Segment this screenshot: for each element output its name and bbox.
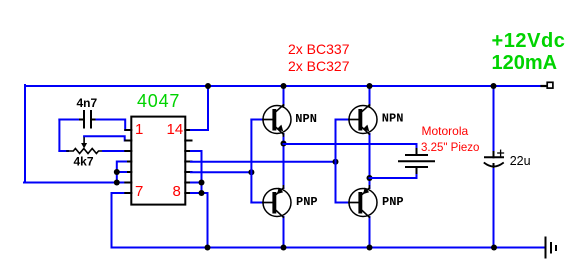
junction C2 at rail	[491, 83, 497, 89]
svg-text:PNP: PNP	[382, 195, 404, 209]
svg-text:NPN: NPN	[382, 112, 404, 126]
junction pin6	[114, 180, 120, 186]
junction right output node	[367, 175, 373, 181]
svg-text:4n7: 4n7	[77, 96, 98, 110]
svg-text:+12Vdc: +12Vdc	[492, 30, 566, 52]
wire left output node to piezo top	[284, 144, 417, 150]
piezo LS1	[399, 149, 434, 173]
wire left mid vertical (emitters)	[283, 134, 285, 188]
wire left PNP collector to bottom rail	[283, 217, 285, 248]
pin stubs left (1-7)	[125, 130, 131, 193]
junction left PNP at bottom rail	[281, 245, 287, 251]
svg-text:14: 14	[167, 121, 184, 138]
wire left base vertical	[250, 120, 252, 203]
wire left NPN collector to rail	[283, 86, 285, 105]
junction pin11 at right base line	[333, 159, 339, 165]
svg-text:1: 1	[135, 121, 143, 138]
transistor Q4 right PNP	[349, 186, 377, 218]
wiper arrow of R1	[81, 137, 87, 149]
junction pin8 net at bottom rail	[205, 245, 211, 251]
svg-text:4k7: 4k7	[74, 154, 94, 168]
wire right PNP collector to bottom rail	[369, 217, 371, 248]
wire pin14 to rail	[191, 86, 208, 130]
wire top +12V rail	[25, 85, 542, 87]
wire left NPN base lead	[251, 119, 263, 121]
svg-text:3.25" Piezo: 3.25" Piezo	[421, 142, 479, 154]
svg-text:4047: 4047	[137, 91, 180, 111]
wire pin8 to bottom rail	[191, 193, 208, 248]
svg-text:PNP: PNP	[296, 195, 318, 209]
junction left collector at rail	[281, 83, 287, 89]
wire wiper to pin2	[84, 136, 127, 140]
wire pin7 to bottom rail	[112, 193, 127, 248]
capacitor C2 22u polarized	[485, 150, 504, 170]
pin stubs right (14-8)	[185, 130, 191, 193]
wire pin11 to right pair bases	[191, 161, 336, 163]
wire RC node vertical (4n7/4k7 left)	[58, 120, 60, 152]
svg-text:2x BC327: 2x BC327	[288, 58, 350, 74]
svg-text:120mA: 120mA	[492, 52, 558, 74]
wire left PNP base lead	[251, 202, 263, 204]
junction left output node	[281, 141, 287, 147]
wire rail down to C2	[493, 86, 495, 153]
junction pin9	[199, 180, 205, 186]
svg-text:NPN: NPN	[295, 112, 317, 126]
wire right PNP base lead	[336, 202, 350, 204]
transistor Q2 right NPN	[349, 105, 377, 134]
IC U1 4047 body	[131, 117, 185, 205]
ground symbol	[546, 238, 557, 258]
junction pin14 rail	[205, 83, 211, 89]
wire pin12 down to pin9/8	[191, 151, 202, 193]
junction pin8	[199, 190, 205, 196]
wire R1 to pin3	[103, 150, 127, 152]
svg-text:22u: 22u	[510, 154, 531, 168]
wire bottom ground rail	[112, 247, 546, 249]
transistor Q3 left PNP	[263, 186, 291, 218]
terminal +12V	[542, 85, 548, 87]
junction C2 at bottom rail	[491, 245, 497, 251]
junction pin5	[114, 169, 120, 175]
junction right PNP at bottom rail	[367, 245, 373, 251]
junction pin10 at left base line	[248, 169, 254, 175]
wire right mid vertical (emitters)	[369, 134, 371, 188]
wire right NPN collector to rail	[369, 86, 371, 105]
junction right collector at rail	[367, 83, 373, 89]
wire pin6 feed from left rail	[24, 182, 127, 184]
svg-text:7: 7	[135, 183, 143, 200]
wire pin10 to left pair bases	[191, 171, 251, 173]
wire pin9	[191, 182, 202, 184]
wire C1 to pin1	[97, 120, 128, 131]
wire right output node to piezo bottom	[370, 172, 417, 178]
resistor R1 4k7 trimmer	[59, 149, 104, 154]
wire left vertical from rail	[24, 85, 26, 183]
svg-text:2x BC337: 2x BC337	[288, 41, 350, 57]
wire right NPN base lead	[336, 119, 350, 121]
capacitor C1 4n7	[59, 111, 97, 128]
wire C2 to bottom rail	[493, 169, 495, 248]
transistor Q1 left NPN	[263, 105, 291, 136]
wire pins 4,5 to pin6 net	[117, 162, 126, 183]
svg-text:8: 8	[173, 183, 181, 200]
svg-text:Motorola: Motorola	[422, 124, 469, 138]
wire right base vertical	[335, 120, 337, 203]
